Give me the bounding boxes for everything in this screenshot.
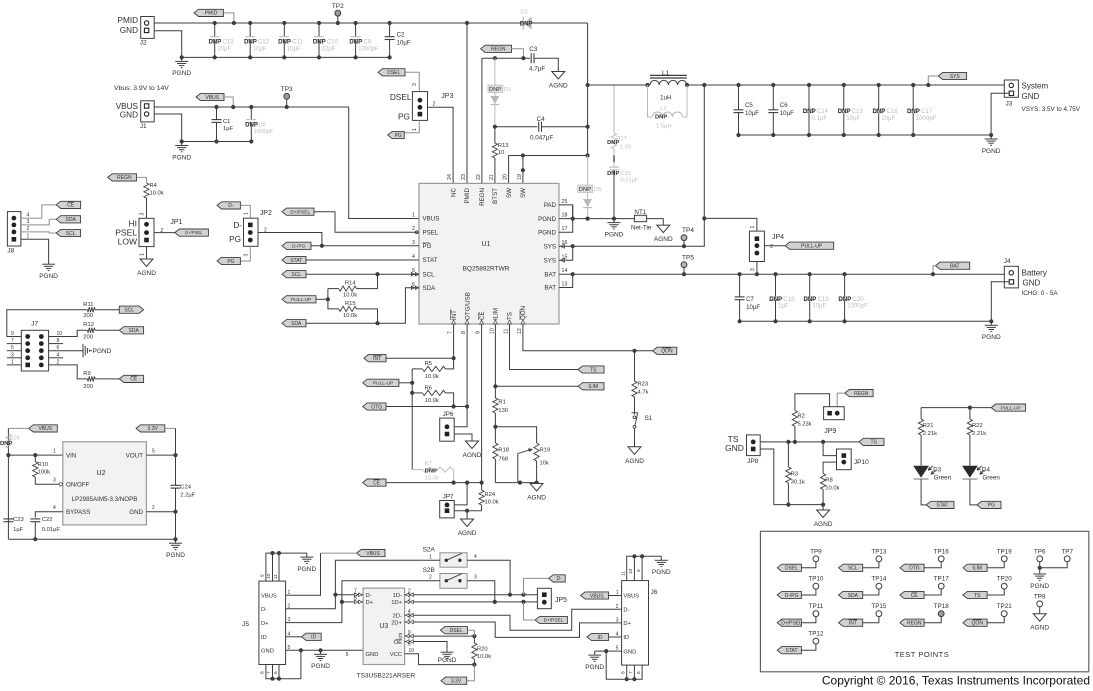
svg-text:12: 12: [517, 328, 523, 334]
resistor R22: [969, 408, 971, 419]
inductor L1: [588, 84, 650, 86]
svg-text:7: 7: [266, 671, 272, 674]
svg-text:DSEL: DSEL: [450, 628, 463, 634]
svg-text:PGND: PGND: [982, 334, 1001, 341]
svg-text:4.7k: 4.7k: [638, 390, 649, 396]
svg-text:TP18: TP18: [934, 603, 950, 610]
net flag PULL-UP LEDs: [991, 404, 1025, 411]
svg-text:JP9: JP9: [824, 428, 836, 435]
connector J3 System: [1004, 80, 1018, 97]
svg-text:SDA: SDA: [848, 593, 859, 599]
svg-text:DSEL: DSEL: [785, 566, 798, 572]
svg-text:LOW: LOW: [118, 237, 137, 247]
svg-text:8: 8: [354, 596, 357, 602]
svg-text:C2: C2: [397, 31, 405, 38]
svg-text:D3: D3: [933, 466, 942, 473]
svg-text:TP6: TP6: [1034, 548, 1046, 555]
svg-text:C4: C4: [537, 116, 546, 123]
resistor R20: [473, 636, 475, 643]
wire: [534, 58, 558, 71]
wire: [482, 57, 530, 59]
jumper JP9: [824, 407, 845, 420]
wire: [823, 462, 836, 473]
svg-text:OTG: OTG: [909, 566, 920, 572]
capacitor C9 DNP: [355, 23, 357, 37]
resistor R23: [634, 351, 636, 381]
svg-text:JP2: JP2: [260, 210, 272, 217]
capacitor C16 DNP: [878, 85, 880, 110]
ground AGND NT1: [657, 225, 670, 233]
svg-text:SYS: SYS: [544, 258, 556, 265]
svg-text:DNP: DNP: [489, 87, 501, 93]
svg-text:3: 3: [750, 268, 756, 271]
svg-text:VIN: VIN: [66, 452, 76, 459]
svg-text:TP10: TP10: [808, 576, 824, 583]
wire: [404, 120, 419, 132]
svg-text:PULL-UP: PULL-UP: [801, 244, 823, 250]
wire: [609, 595, 622, 597]
wire: [311, 245, 419, 247]
wire: [524, 578, 549, 594]
wire: [49, 343, 64, 345]
net flag ID J5: [302, 633, 322, 640]
ground PGND J6: [594, 651, 596, 655]
svg-text:JP6: JP6: [443, 411, 454, 418]
svg-text:17: 17: [562, 226, 568, 232]
svg-text:C24: C24: [180, 485, 191, 491]
jumper JP4: [749, 231, 764, 261]
svg-text:1µF: 1µF: [223, 126, 234, 132]
net flag DSEL bottom: [440, 627, 467, 634]
svg-text:30.1k: 30.1k: [791, 480, 805, 486]
svg-text:10.0k: 10.0k: [343, 313, 357, 319]
svg-text:ILIM: ILIM: [588, 384, 598, 390]
resistor R7 DNP: [422, 467, 452, 472]
svg-text:1: 1: [412, 128, 418, 131]
net flag D+/PSEL JP1: [175, 229, 209, 236]
svg-text:2: 2: [152, 505, 155, 511]
svg-text:GND: GND: [725, 443, 744, 453]
svg-text:22: 22: [476, 174, 482, 180]
svg-text:1: 1: [429, 554, 432, 560]
svg-text:BAT: BAT: [950, 264, 959, 270]
svg-text:CE: CE: [373, 480, 381, 486]
svg-text:2.21k: 2.21k: [923, 431, 937, 437]
svg-text:AGND: AGND: [1030, 625, 1049, 632]
svg-text:ID: ID: [311, 635, 316, 641]
svg-text:10µF: 10µF: [253, 46, 267, 53]
wire: [306, 273, 419, 275]
U3 pin10 VCC wire: [405, 654, 475, 665]
U3 pin8 D+ stub: [342, 601, 363, 603]
svg-text:DNP: DNP: [655, 115, 667, 121]
svg-text:TS: TS: [871, 440, 878, 446]
svg-text:CE: CE: [130, 377, 138, 383]
capacitor C17 DNP: [912, 85, 914, 110]
svg-text:JP4: JP4: [772, 234, 784, 241]
switch S1: [633, 416, 636, 419]
ground PGND J1: [181, 142, 183, 146]
wire: [154, 22, 587, 24]
U3 pin3 2D+ stub: [405, 622, 622, 637]
wire: [740, 320, 992, 322]
capacitor C10 DNP: [318, 23, 320, 37]
wire: [466, 23, 468, 183]
U1 pin11 TS wire: [509, 324, 511, 370]
wire: [7, 343, 21, 345]
svg-text:R22: R22: [972, 423, 983, 429]
svg-text:1.5µH: 1.5µH: [656, 124, 672, 130]
svg-text:AGND: AGND: [137, 270, 156, 277]
svg-text:R18: R18: [498, 448, 509, 454]
resistor R1: [493, 398, 498, 413]
wire: [466, 511, 468, 519]
svg-text:10.0k: 10.0k: [425, 374, 439, 380]
wire: [335, 560, 440, 594]
svg-text:R1: R1: [498, 400, 505, 406]
net flag BAT: [936, 262, 970, 269]
svg-text:R20: R20: [477, 647, 488, 653]
svg-text:D-: D-: [261, 607, 267, 613]
svg-text:1: 1: [53, 449, 56, 455]
ground PGND J6 shield: [660, 556, 662, 560]
resistor R5: [412, 368, 422, 370]
net flag 3.3V bottom: [441, 677, 467, 684]
svg-text:Vbus: 3.9V to 14V: Vbus: 3.9V to 14V: [114, 85, 169, 92]
svg-text:D2: D2: [520, 10, 527, 16]
U3 pin4 2D- stub: [405, 609, 622, 630]
wire: [428, 107, 454, 183]
wire: [258, 233, 322, 246]
jumper JP2: [244, 218, 259, 246]
svg-text:QON: QON: [520, 306, 527, 320]
svg-text:3: 3: [412, 83, 418, 86]
svg-text:SDA: SDA: [291, 321, 302, 327]
wire: [454, 483, 467, 505]
wire: [21, 205, 56, 218]
svg-text:C22: C22: [42, 517, 53, 523]
svg-text:INT: INT: [373, 356, 381, 362]
svg-text:INT: INT: [849, 621, 857, 627]
svg-text:JP3: JP3: [441, 93, 453, 100]
svg-text:11: 11: [621, 571, 627, 576]
wire: [182, 141, 252, 143]
wire: [687, 84, 1004, 86]
resistor R17 DNP: [613, 85, 615, 133]
svg-text:3: 3: [474, 574, 477, 580]
svg-text:DNP: DNP: [607, 171, 619, 177]
wire: [286, 595, 336, 609]
svg-text:10µF: 10µF: [846, 115, 860, 122]
svg-text:DSEL: DSEL: [390, 92, 412, 102]
wire: [454, 510, 481, 512]
svg-text:VBUS: VBUS: [261, 594, 277, 600]
svg-text:C6: C6: [780, 102, 788, 109]
ground PGND J5: [320, 650, 322, 654]
svg-text:20: 20: [503, 174, 509, 180]
U3 pin9 OE stub: [405, 635, 475, 637]
svg-text:R14: R14: [345, 281, 356, 287]
svg-text:D-/PG: D-/PG: [785, 593, 799, 599]
svg-text:VBUS: VBUS: [38, 426, 52, 432]
svg-text:TS: TS: [974, 593, 981, 599]
connector J5 USB: [259, 581, 286, 664]
ground PGND J3: [990, 135, 992, 139]
LED D3 Green: [913, 466, 929, 478]
inductor L2 DNP: [645, 83, 649, 87]
svg-text:1D+: 1D+: [391, 600, 402, 606]
wire: [399, 382, 412, 384]
svg-text:GND: GND: [261, 649, 274, 655]
svg-text:10.0k: 10.0k: [477, 654, 491, 660]
svg-text:4.7µF: 4.7µF: [529, 66, 545, 73]
svg-text:25: 25: [562, 199, 568, 205]
svg-text:SCL: SCL: [66, 231, 76, 237]
svg-text:R23: R23: [638, 382, 649, 388]
wire: [306, 288, 419, 323]
svg-text:VOUT: VOUT: [126, 452, 143, 459]
svg-text:3: 3: [53, 478, 56, 484]
wire: [573, 273, 1005, 275]
svg-text:SDA: SDA: [66, 217, 77, 223]
svg-text:R3: R3: [791, 472, 798, 478]
svg-text:CE: CE: [911, 593, 919, 599]
diode D1 DNP: [494, 58, 496, 127]
capacitor C18 DNP: [775, 274, 777, 297]
svg-text:4: 4: [412, 254, 415, 260]
resistor R8: [821, 474, 826, 490]
net flag DSEL: [378, 69, 405, 76]
svg-text:1000pF: 1000pF: [847, 303, 868, 310]
svg-text:23: 23: [461, 174, 467, 180]
net flag CE J8: [56, 201, 80, 208]
svg-text:TP20: TP20: [997, 576, 1013, 583]
wire: [559, 246, 573, 260]
wire: [595, 650, 622, 652]
wire: [609, 636, 622, 638]
svg-text:S2A: S2A: [423, 547, 436, 554]
wire: [21, 232, 56, 233]
svg-text:VCC: VCC: [390, 652, 402, 658]
wire: [704, 218, 757, 231]
svg-text:1: 1: [408, 596, 411, 602]
net flag REGN JP1: [108, 174, 137, 181]
svg-text:STAT: STAT: [423, 257, 438, 264]
net flag D- JP5: [549, 575, 566, 582]
wire: [146, 247, 148, 259]
svg-text:PG: PG: [423, 243, 432, 250]
svg-text:PGND: PGND: [652, 569, 671, 576]
svg-text:2: 2: [27, 226, 30, 232]
svg-text:DNP: DNP: [907, 108, 920, 115]
svg-text:3.3V: 3.3V: [451, 679, 462, 685]
net flag VBUS: [196, 93, 224, 100]
resistor R12: [87, 328, 95, 333]
wire: [286, 602, 342, 623]
svg-text:3: 3: [27, 219, 30, 225]
svg-text:TEST POINTS: TEST POINTS: [895, 650, 950, 659]
svg-text:JP7: JP7: [443, 494, 454, 501]
svg-text:DNP: DNP: [520, 21, 533, 28]
svg-text:PG: PG: [395, 133, 402, 139]
svg-text:1.00: 1.00: [620, 145, 631, 151]
svg-text:8: 8: [260, 671, 266, 674]
svg-text:22µF: 22µF: [322, 46, 336, 53]
jumper JP3: [412, 92, 427, 121]
wire: [467, 581, 495, 602]
svg-text:U1: U1: [482, 241, 491, 248]
net flag SDA J7: [119, 327, 143, 334]
svg-text:7: 7: [448, 331, 454, 334]
svg-text:9: 9: [636, 569, 642, 572]
svg-text:11: 11: [273, 574, 279, 579]
ground PGND battery: [990, 321, 992, 325]
svg-text:R11: R11: [83, 302, 93, 308]
wire: [154, 31, 182, 58]
svg-text:C17: C17: [921, 108, 933, 115]
svg-text:DNP: DNP: [873, 108, 886, 115]
wire: [512, 49, 524, 58]
svg-text:Copyright © 2016, Texas Instru: Copyright © 2016, Texas Instruments Inco…: [822, 674, 1090, 688]
svg-text:SCL: SCL: [848, 566, 858, 572]
svg-text:R8: R8: [825, 478, 832, 484]
svg-text:PMID: PMID: [205, 11, 218, 17]
capacitor C24: [175, 455, 177, 485]
capacitor C19 DNP: [809, 274, 811, 297]
resistor R11: [87, 307, 95, 312]
svg-text:1D-: 1D-: [393, 593, 402, 599]
svg-text:TP21: TP21: [997, 603, 1013, 610]
svg-text:D1: D1: [504, 87, 511, 93]
svg-text:9: 9: [260, 574, 266, 577]
ground AGND S1: [628, 447, 641, 455]
svg-text:0.01µF: 0.01µF: [620, 178, 639, 184]
ground AGND JP7: [461, 519, 474, 527]
capacitor C7: [739, 274, 741, 297]
svg-text:R21: R21: [923, 423, 934, 429]
svg-text:4: 4: [408, 609, 411, 615]
wire: [634, 429, 636, 447]
wire: [921, 479, 930, 505]
resistor R9: [87, 376, 95, 381]
svg-text:PGND: PGND: [172, 154, 191, 161]
U1 pin12 QON wire: [523, 324, 653, 351]
net flag SCL J8: [56, 229, 80, 236]
ground PGND U1: [613, 219, 615, 223]
svg-text:AGND: AGND: [458, 530, 477, 537]
U3 pin7 D- stub: [335, 594, 363, 596]
svg-text:D4: D4: [982, 466, 991, 473]
wire: [559, 218, 634, 220]
svg-text:CE: CE: [67, 203, 75, 209]
wire: [306, 259, 419, 261]
svg-text:TP11: TP11: [809, 603, 824, 610]
svg-text:C8: C8: [259, 123, 266, 129]
wire: [467, 560, 510, 594]
svg-text:10µF: 10µF: [745, 110, 759, 117]
test points outline box: [760, 531, 1088, 672]
wire: [823, 442, 836, 456]
svg-text:D-/PG: D-/PG: [292, 244, 306, 250]
svg-text:ID: ID: [598, 635, 603, 641]
svg-text:10µF: 10µF: [287, 46, 301, 53]
wire: [286, 649, 364, 651]
IC U2 LP2985: [63, 442, 147, 525]
wire: [573, 85, 705, 246]
net flag SDA J8: [56, 216, 80, 223]
ground PGND J2: [181, 57, 183, 61]
svg-text:DNP: DNP: [607, 140, 619, 146]
net flag ID J6: [587, 633, 609, 640]
resistor R6: [412, 392, 422, 394]
svg-text:0.01µF: 0.01µF: [42, 527, 61, 533]
svg-text:PGND: PGND: [538, 229, 556, 236]
svg-text:3: 3: [408, 616, 411, 622]
svg-text:2: 2: [770, 244, 773, 250]
svg-text:CE: CE: [479, 311, 486, 320]
svg-text:TP17: TP17: [934, 576, 950, 583]
svg-text:9: 9: [476, 331, 482, 334]
svg-text:PGND: PGND: [585, 664, 604, 671]
svg-text:R10: R10: [38, 462, 49, 468]
svg-text:C15: C15: [852, 108, 864, 115]
wire: [837, 393, 845, 407]
net flag REGN: [481, 45, 512, 52]
svg-text:2D+: 2D+: [391, 620, 402, 626]
svg-text:GND: GND: [120, 111, 138, 120]
svg-text:ILIM: ILIM: [493, 308, 500, 320]
capacitor C8 DNP: [250, 107, 252, 120]
svg-text:SCL: SCL: [291, 272, 301, 278]
jumper JP10: [837, 449, 852, 470]
svg-text:VBUS: VBUS: [423, 216, 440, 223]
resistor R19 potentiometer: [534, 443, 539, 461]
svg-text:DNP: DNP: [803, 108, 816, 115]
connector J6 USB: [622, 581, 649, 666]
svg-text:TP7: TP7: [1061, 548, 1073, 555]
svg-text:TP16: TP16: [934, 548, 950, 555]
wire: [223, 13, 234, 23]
svg-text:PG: PG: [227, 259, 234, 265]
wire: [454, 407, 467, 427]
svg-text:DNP: DNP: [245, 122, 258, 129]
svg-text:5.23k: 5.23k: [798, 422, 812, 428]
svg-text:1000pF: 1000pF: [358, 46, 379, 53]
wire: [49, 350, 83, 352]
wire: [7, 310, 88, 337]
svg-text:D+: D+: [261, 621, 269, 627]
svg-text:ICHG: 0 - 5A: ICHG: 0 - 5A: [1022, 290, 1059, 297]
svg-text:AGND: AGND: [625, 458, 644, 465]
wire: [495, 482, 536, 484]
svg-text:14: 14: [562, 268, 568, 274]
net flag PULL-UP: [785, 242, 834, 249]
svg-text:1: 1: [750, 226, 756, 229]
svg-text:U2: U2: [97, 470, 106, 477]
ground AGND JP1: [140, 259, 153, 267]
svg-text:21: 21: [489, 174, 495, 180]
svg-text:VBUS: VBUS: [623, 594, 639, 600]
svg-text:7: 7: [628, 671, 634, 674]
svg-text:J1: J1: [140, 123, 147, 130]
capacitor C11 DNP: [283, 23, 285, 37]
svg-text:TS3USB221ARSER: TS3USB221ARSER: [357, 673, 416, 680]
wire: [405, 72, 419, 91]
wire: [240, 246, 250, 261]
wire: [933, 266, 936, 275]
svg-text:TP19: TP19: [997, 548, 1013, 555]
svg-text:JP8: JP8: [747, 458, 759, 465]
